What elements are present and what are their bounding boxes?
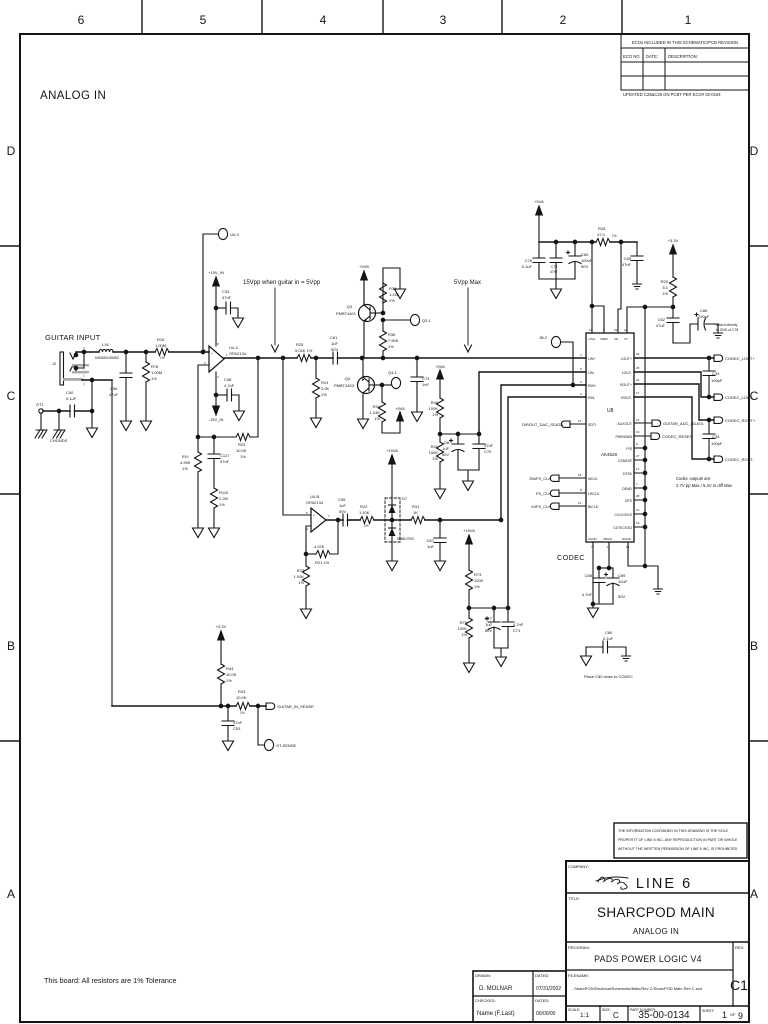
svg-text:+5VA: +5VA bbox=[395, 406, 405, 411]
svg-text:1:1: 1:1 bbox=[580, 1012, 589, 1019]
svg-text:C79: C79 bbox=[551, 265, 557, 269]
chassis ground GT1 bbox=[40, 413, 42, 430]
svg-text:Codec outputs are:: Codec outputs are: bbox=[676, 476, 711, 481]
wire bbox=[610, 241, 637, 243]
svg-text:CHGNDS: CHGNDS bbox=[50, 438, 68, 443]
svg-text:100K: 100K bbox=[429, 450, 439, 455]
svg-text:28: 28 bbox=[636, 494, 640, 498]
svg-text:64FS_CLK: 64FS_CLK bbox=[531, 504, 551, 509]
svg-text:15: 15 bbox=[636, 521, 640, 525]
resistor R36 bbox=[382, 320, 384, 331]
svg-text:10uF: 10uF bbox=[618, 579, 628, 584]
svg-text:to GND of C78: to GND of C78 bbox=[716, 328, 738, 332]
terminal Q3-1 bbox=[383, 319, 410, 321]
terminal GT1 bbox=[39, 409, 43, 413]
svg-text:C86: C86 bbox=[700, 308, 708, 313]
svg-text:47uF: 47uF bbox=[109, 392, 119, 397]
svg-text:5: 5 bbox=[200, 13, 207, 27]
svg-text:VBIAS: VBIAS bbox=[603, 537, 612, 541]
svg-text:256FS_CLK: 256FS_CLK bbox=[529, 476, 551, 481]
svg-text:47nF: 47nF bbox=[220, 459, 230, 464]
svg-text:9: 9 bbox=[738, 1011, 743, 1021]
svg-text:8: 8 bbox=[580, 488, 582, 492]
svg-text:FILENAME:: FILENAME: bbox=[568, 973, 589, 978]
svg-text:A: A bbox=[750, 887, 758, 901]
svg-text:GT-SENSE: GT-SENSE bbox=[276, 743, 297, 748]
capacitor C127 bbox=[213, 437, 215, 454]
wire LOUT+ bbox=[634, 357, 714, 359]
svg-text:47nF: 47nF bbox=[233, 720, 243, 725]
svg-text:Q4: Q4 bbox=[345, 376, 351, 381]
capacitor C59 bbox=[636, 242, 638, 256]
wire tip to main line bbox=[76, 352, 99, 355]
svg-text:100K: 100K bbox=[429, 406, 439, 411]
op-amp U4-B bbox=[311, 508, 326, 532]
svg-text:R28: R28 bbox=[598, 226, 606, 231]
capacitor C40 bbox=[70, 405, 75, 417]
svg-text:+15VA: +15VA bbox=[386, 448, 398, 453]
svg-text:5: 5 bbox=[580, 367, 582, 371]
svg-text:R34: R34 bbox=[373, 404, 381, 409]
svg-text:B: B bbox=[7, 639, 15, 653]
svg-text:PADS POWER LOGIC V4: PADS POWER LOGIC V4 bbox=[594, 954, 702, 964]
wire RIN- riser bbox=[508, 397, 586, 608]
wire tap riser to U4-B bbox=[283, 358, 311, 515]
wire ring bbox=[76, 352, 84, 368]
svg-text:AUXOUT: AUXOUT bbox=[617, 422, 632, 426]
wire LIN- bbox=[479, 372, 586, 434]
svg-text:ECO NO.: ECO NO. bbox=[623, 54, 641, 59]
svg-text:R20: R20 bbox=[661, 279, 669, 284]
svg-text:1%: 1% bbox=[182, 466, 188, 471]
svg-text:1uF: 1uF bbox=[339, 503, 346, 508]
svg-text:7.50K: 7.50K bbox=[388, 338, 399, 343]
svg-text:A: A bbox=[7, 887, 15, 901]
svg-text:DFS0: DFS0 bbox=[623, 472, 632, 476]
svg-text:+5VB: +5VB bbox=[359, 264, 369, 269]
svg-text:50V: 50V bbox=[581, 264, 588, 269]
svg-text:DESCRIPTION:: DESCRIPTION: bbox=[668, 54, 698, 59]
svg-text:R25: R25 bbox=[296, 342, 304, 347]
svg-text:4.7nF: 4.7nF bbox=[582, 592, 593, 597]
svg-text:2.2M: 2.2M bbox=[219, 496, 228, 501]
svg-text:R38: R38 bbox=[389, 286, 397, 291]
svg-text:0.1uF: 0.1uF bbox=[522, 264, 533, 269]
svg-text:R73: R73 bbox=[474, 572, 482, 577]
svg-text:Q3-1: Q3-1 bbox=[422, 318, 432, 323]
svg-text:MCLK: MCLK bbox=[588, 477, 598, 481]
zone tick top 4 bbox=[501, 0, 503, 34]
wire -input bbox=[198, 365, 209, 437]
svg-text:This board: All resistors are: This board: All resistors are 1% Toleran… bbox=[44, 976, 177, 985]
svg-text:R41: R41 bbox=[431, 444, 439, 449]
svg-text:VD: VD bbox=[614, 337, 619, 341]
capacitor C61 bbox=[333, 352, 338, 364]
wire GT1 to C40 bbox=[43, 410, 70, 412]
svg-text:U4-4: U4-4 bbox=[229, 345, 238, 350]
capacitor C89 electrolytic bbox=[612, 568, 614, 578]
terminal CODEC_ROUT- bbox=[714, 456, 723, 462]
node base Q3 bbox=[381, 311, 385, 315]
svg-text:CODEC_RESET: CODEC_RESET bbox=[662, 434, 693, 439]
wire bbox=[374, 519, 411, 521]
svg-text:DIROUT_DAC_SDATA: DIROUT_DAC_SDATA bbox=[522, 422, 563, 427]
svg-text:1: 1 bbox=[722, 1010, 727, 1020]
svg-text:25: 25 bbox=[636, 366, 640, 370]
svg-text:1.00M: 1.00M bbox=[151, 370, 162, 375]
svg-text:..SharcPOD/Electrical/Schemati: ..SharcPOD/Electrical/Schematic/Main/Rev… bbox=[572, 986, 702, 991]
svg-text:PMBT4403: PMBT4403 bbox=[334, 383, 355, 388]
svg-text:47nF: 47nF bbox=[222, 295, 232, 300]
svg-text:LIN-: LIN- bbox=[588, 371, 595, 375]
svg-text:D8: D8 bbox=[444, 440, 450, 445]
svg-text:1: 1 bbox=[226, 353, 228, 357]
zone tick top 3 bbox=[382, 0, 384, 34]
svg-text:L16: L16 bbox=[102, 342, 109, 347]
wire rail bbox=[539, 241, 596, 243]
transistor Q4 PMBT4403 bbox=[358, 377, 375, 394]
wire +5VA pin bbox=[591, 242, 593, 333]
svg-text:C59: C59 bbox=[624, 256, 632, 261]
svg-text:AGND: AGND bbox=[588, 537, 598, 541]
svg-text:7: 7 bbox=[636, 482, 638, 486]
svg-text:C77: C77 bbox=[485, 616, 493, 621]
svg-text:1%: 1% bbox=[388, 344, 394, 349]
svg-text:4.7nF: 4.7nF bbox=[224, 383, 235, 388]
wire to RIN+ riser bbox=[425, 519, 501, 521]
svg-text:35-00-0134: 35-00-0134 bbox=[638, 1010, 690, 1021]
svg-text:R76: R76 bbox=[151, 364, 159, 369]
svg-text:26: 26 bbox=[636, 352, 640, 356]
svg-text:+15V_IN: +15V_IN bbox=[208, 270, 224, 275]
svg-text:MMBD7000: MMBD7000 bbox=[397, 537, 414, 541]
node ring bbox=[82, 350, 86, 354]
resistor R21 bbox=[316, 551, 330, 558]
svg-text:R110: R110 bbox=[219, 490, 229, 495]
svg-text:50V: 50V bbox=[339, 509, 346, 514]
svg-text:C60: C60 bbox=[581, 252, 589, 257]
svg-text:10: 10 bbox=[636, 508, 640, 512]
svg-text:100K: 100K bbox=[474, 578, 484, 583]
svg-text:1uF: 1uF bbox=[331, 341, 338, 346]
svg-text:LIN+: LIN+ bbox=[588, 357, 596, 361]
svg-text:47nF: 47nF bbox=[550, 270, 558, 274]
svg-text:ANALOG IN: ANALOG IN bbox=[40, 90, 106, 102]
resistor R76 bbox=[145, 352, 147, 362]
terminal GUITAR_IN_SENSE bbox=[266, 703, 275, 709]
zone tick top 5 bbox=[621, 0, 623, 34]
svg-text:C: C bbox=[7, 389, 16, 403]
svg-text:1%: 1% bbox=[160, 356, 165, 360]
svg-text:5.04K 1%: 5.04K 1% bbox=[295, 348, 313, 353]
wire long riser from jack switch down bbox=[111, 380, 113, 706]
capacitor C55 bbox=[343, 514, 348, 526]
capacitor C67 bbox=[439, 520, 441, 538]
wire main output bbox=[224, 357, 297, 359]
resistor R23b bbox=[305, 554, 307, 566]
svg-text:C1: C1 bbox=[730, 977, 748, 993]
svg-text:+3.3V: +3.3V bbox=[668, 238, 679, 243]
resistor R24 bbox=[315, 358, 317, 378]
svg-text:47nF: 47nF bbox=[484, 443, 494, 448]
wire main line to codec LIN+ bbox=[338, 357, 587, 359]
node sleeve bbox=[90, 378, 94, 382]
svg-text:24: 24 bbox=[636, 378, 640, 382]
bias node bbox=[440, 433, 479, 435]
capacitor C71 bbox=[507, 608, 509, 622]
svg-text:SHEET:: SHEET: bbox=[702, 1009, 715, 1013]
wire VD pin bbox=[618, 242, 621, 333]
svg-text:JB-2: JB-2 bbox=[539, 335, 548, 340]
svg-text:47.0: 47.0 bbox=[597, 232, 606, 237]
svg-text:27: 27 bbox=[636, 454, 640, 458]
svg-text:1%: 1% bbox=[364, 524, 369, 528]
wire VREF pin bbox=[592, 306, 604, 333]
svg-text:+5VA: +5VA bbox=[435, 364, 445, 369]
node C40 bbox=[90, 409, 94, 413]
svg-text:50V: 50V bbox=[618, 594, 625, 599]
op-amp U4-4 bbox=[209, 346, 224, 372]
svg-text:1%: 1% bbox=[612, 234, 617, 238]
wire ROUT+ bbox=[634, 384, 714, 420]
svg-text:00/00/00: 00/00/00 bbox=[536, 1011, 556, 1017]
svg-text:DATED:: DATED: bbox=[535, 998, 549, 1003]
wire VBIAS bbox=[608, 542, 610, 568]
svg-text:R19: R19 bbox=[182, 455, 188, 459]
svg-text:4: 4 bbox=[580, 353, 582, 357]
svg-text:DRAWN:: DRAWN: bbox=[475, 973, 491, 978]
svg-text:LOUT-: LOUT- bbox=[622, 371, 633, 375]
svg-text:C127: C127 bbox=[220, 453, 230, 458]
svg-text:600MW/100MHZ: 600MW/100MHZ bbox=[95, 356, 119, 360]
svg-text:50V: 50V bbox=[442, 452, 449, 457]
svg-text:SHARCPOD MAIN: SHARCPOD MAIN bbox=[597, 905, 715, 920]
wire sleeve/switch bbox=[82, 379, 112, 381]
wire feedback to output bbox=[250, 358, 258, 437]
svg-text:OPA2134: OPA2134 bbox=[306, 500, 324, 505]
wire bbox=[250, 705, 266, 707]
svg-text:4: 4 bbox=[320, 13, 327, 27]
svg-text:-15V_IN: -15V_IN bbox=[209, 417, 224, 422]
svg-text:1uF: 1uF bbox=[442, 446, 449, 451]
wire caps common bbox=[539, 279, 575, 288]
svg-text:17: 17 bbox=[636, 391, 640, 395]
svg-text:2.0K: 2.0K bbox=[321, 386, 330, 391]
svg-text:1.10K: 1.10K bbox=[359, 510, 370, 515]
svg-text:C: C bbox=[613, 1011, 619, 1020]
svg-text:1%: 1% bbox=[389, 298, 395, 303]
svg-text:CODEC_ROUT+: CODEC_ROUT+ bbox=[725, 418, 756, 423]
svg-text:AK4528: AK4528 bbox=[601, 452, 618, 457]
resistor R25 bbox=[297, 355, 311, 362]
svg-text:D: D bbox=[750, 144, 759, 158]
svg-text:4: 4 bbox=[217, 375, 219, 379]
transistor Q3 PMBT4401 bbox=[359, 305, 376, 322]
wire bottom run bbox=[112, 705, 236, 707]
svg-text:1%: 1% bbox=[151, 376, 157, 381]
terminal CODEC_LOUT- bbox=[714, 394, 723, 400]
svg-text:GT1: GT1 bbox=[36, 402, 45, 407]
svg-text:CDTI/CKSD: CDTI/CKSD bbox=[613, 526, 632, 530]
svg-text:+5VA: +5VA bbox=[534, 199, 544, 204]
capacitor C34 bbox=[708, 420, 710, 434]
svg-text:OPA2134: OPA2134 bbox=[229, 351, 247, 356]
svg-text:0.1uF: 0.1uF bbox=[66, 396, 77, 401]
ground bbox=[387, 561, 398, 571]
svg-text:C71: C71 bbox=[513, 628, 521, 633]
svg-text:CODEC_LOUT-: CODEC_LOUT- bbox=[725, 395, 754, 400]
resistor R38 bbox=[382, 283, 384, 313]
resistor R34 bbox=[381, 385, 383, 402]
capacitor C79 bbox=[555, 242, 557, 258]
svg-text:1%: 1% bbox=[240, 711, 245, 715]
svg-text:+: + bbox=[211, 352, 213, 356]
capacitor C86 220uF bbox=[673, 324, 698, 343]
svg-text:R36: R36 bbox=[388, 332, 396, 337]
svg-text:C53: C53 bbox=[233, 726, 241, 731]
resistor R23 bbox=[236, 434, 250, 441]
terminal CODEC_LOUT+ bbox=[714, 355, 723, 361]
svg-text:19: 19 bbox=[636, 430, 640, 434]
wire AGND bbox=[592, 542, 594, 607]
svg-text:PMBT4401: PMBT4401 bbox=[336, 311, 357, 316]
svg-text:23: 23 bbox=[614, 328, 618, 332]
svg-text:GUITAR_ADC_SDATA: GUITAR_ADC_SDATA bbox=[663, 421, 704, 426]
svg-text:THE INFORMATION CONTAINED IN T: THE INFORMATION CONTAINED IN THIS DRAWIN… bbox=[618, 829, 729, 833]
wire caps to ground bbox=[494, 648, 508, 656]
svg-text:ANALOG IN: ANALOG IN bbox=[633, 927, 679, 936]
svg-text:C33: C33 bbox=[712, 371, 720, 376]
power -15V_IN bbox=[215, 372, 217, 406]
wire bbox=[311, 357, 333, 359]
svg-text:8: 8 bbox=[217, 342, 219, 346]
resistor R73 bbox=[466, 570, 473, 590]
inductor L16 bbox=[99, 349, 113, 352]
svg-text:9: 9 bbox=[636, 442, 638, 446]
terminal GT-SENSE bbox=[258, 706, 264, 745]
capacitor C60 electrolytic bbox=[574, 242, 576, 256]
svg-text:WITHOUT THE WRITTEN PERMISSION: WITHOUT THE WRITTEN PERMISSION OF LINE 6… bbox=[618, 847, 738, 851]
svg-text:1.24K: 1.24K bbox=[370, 410, 381, 415]
title block bbox=[473, 823, 749, 1022]
wire C40 to node bbox=[75, 410, 93, 412]
capacitor C88 bbox=[598, 568, 600, 578]
svg-text:1uF: 1uF bbox=[485, 622, 492, 627]
wire bias caps ground bbox=[458, 470, 479, 480]
resistor R43 bbox=[236, 703, 250, 710]
svg-text:3: 3 bbox=[440, 13, 447, 27]
svg-text:1%: 1% bbox=[219, 502, 225, 507]
wire output bbox=[326, 519, 343, 521]
svg-text:C89: C89 bbox=[618, 573, 626, 578]
capacitor D8 electrolytic bbox=[457, 434, 459, 444]
svg-text:C78: C78 bbox=[525, 258, 533, 263]
svg-text:VT: VT bbox=[624, 337, 628, 341]
svg-text:2: 2 bbox=[580, 392, 582, 396]
capacitor C78 bbox=[538, 242, 540, 258]
svg-text:100pF: 100pF bbox=[711, 441, 723, 446]
svg-text:1nF: 1nF bbox=[422, 382, 429, 387]
wire ROUT- bbox=[634, 397, 714, 459]
svg-text:5: 5 bbox=[306, 511, 308, 515]
diode D7 dual MMBD7000 bbox=[385, 498, 400, 542]
resistor R31 bbox=[411, 517, 425, 524]
svg-text:LOUT+: LOUT+ bbox=[621, 357, 632, 361]
svg-text:Name (F.Last): Name (F.Last) bbox=[477, 1011, 515, 1017]
wire DGND bbox=[628, 542, 658, 588]
bias cap loop bbox=[599, 567, 613, 569]
svg-text:SIZE:: SIZE: bbox=[602, 1008, 611, 1012]
svg-text:R43: R43 bbox=[238, 689, 246, 694]
wire RIN+ riser bbox=[501, 385, 586, 520]
svg-text:1%: 1% bbox=[226, 678, 232, 683]
svg-text:PROPERTY OF LINE 6 INC. ANY R: PROPERTY OF LINE 6 INC. ANY REPRODUCTION… bbox=[618, 838, 738, 842]
svg-text:C34: C34 bbox=[712, 434, 720, 439]
svg-text:CODEC_ROUT-: CODEC_ROUT- bbox=[725, 457, 755, 462]
zone tick top 1 bbox=[141, 0, 143, 34]
svg-text:C80: C80 bbox=[605, 630, 613, 635]
svg-text:1%: 1% bbox=[240, 454, 246, 459]
svg-text:+15VA: +15VA bbox=[463, 528, 475, 533]
svg-text:4.02K: 4.02K bbox=[314, 544, 325, 549]
svg-text:13: 13 bbox=[636, 418, 640, 422]
svg-text:220uF: 220uF bbox=[698, 314, 710, 319]
IC U8 AK4528 body bbox=[586, 333, 634, 542]
svg-text:1%: 1% bbox=[432, 412, 438, 417]
resistor R19 bbox=[197, 437, 199, 452]
feedback node bbox=[304, 552, 308, 556]
svg-text:Q4-1: Q4-1 bbox=[388, 370, 398, 375]
svg-text:LINE 6: LINE 6 bbox=[636, 876, 692, 892]
svg-text:1%: 1% bbox=[321, 392, 327, 397]
svg-text:C61: C61 bbox=[330, 335, 338, 340]
svg-text:14: 14 bbox=[578, 419, 582, 423]
wire -input feedback bbox=[306, 526, 311, 554]
svg-text:2: 2 bbox=[560, 13, 567, 27]
wire LOUT- bbox=[634, 372, 714, 397]
svg-text:SCALE:: SCALE: bbox=[568, 1008, 580, 1012]
svg-text:D. MOLNAR: D. MOLNAR bbox=[479, 986, 513, 992]
svg-text:3: 3 bbox=[580, 380, 582, 384]
svg-text:1%: 1% bbox=[461, 632, 467, 637]
svg-text:ROUT+: ROUT+ bbox=[620, 383, 632, 387]
wire sleeve to C40 node bbox=[91, 380, 93, 427]
svg-text:CCLK/CKS: CCLK/CKS bbox=[614, 513, 632, 517]
svg-text:15Vpp when guitar in = 5Vpp: 15Vpp when guitar in = 5Vpp bbox=[243, 280, 321, 286]
svg-text:GUITAR INPUT: GUITAR INPUT bbox=[45, 333, 101, 342]
svg-text:PROGRAM:: PROGRAM: bbox=[568, 945, 590, 950]
svg-text:C48: C48 bbox=[224, 377, 232, 382]
zone tick top 2 bbox=[261, 0, 263, 34]
svg-text:ROUT-: ROUT- bbox=[621, 396, 633, 400]
svg-text:50V: 50V bbox=[331, 347, 338, 352]
svg-text:FS_CLK: FS_CLK bbox=[536, 491, 551, 496]
svg-text:DFS: DFS bbox=[625, 499, 633, 503]
svg-text:DEM1: DEM1 bbox=[622, 487, 632, 491]
svg-text:R21 1%: R21 1% bbox=[315, 560, 330, 565]
svg-text:47uF: 47uF bbox=[656, 323, 666, 328]
resistor R44 bbox=[218, 664, 225, 684]
svg-text:0.1uF: 0.1uF bbox=[603, 636, 614, 641]
svg-text:07/31/2002: 07/31/2002 bbox=[536, 986, 561, 992]
wire to op-amp bbox=[169, 351, 209, 353]
line6 signature logo bbox=[596, 877, 628, 889]
svg-text:REV:: REV: bbox=[735, 945, 744, 950]
capacitor C77 electrolytic bbox=[493, 608, 495, 622]
svg-text:10.0K: 10.0K bbox=[236, 695, 247, 700]
svg-text:1%: 1% bbox=[662, 291, 668, 296]
svg-text:P/S: P/S bbox=[626, 447, 632, 451]
